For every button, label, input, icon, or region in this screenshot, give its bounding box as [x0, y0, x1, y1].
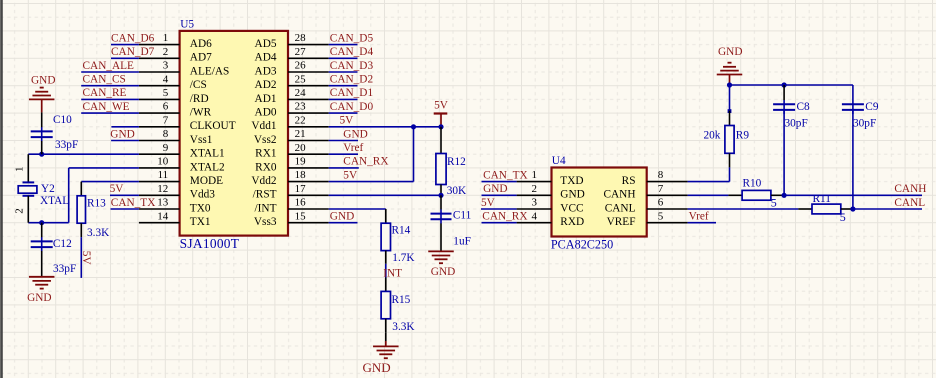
- svg-text:10: 10: [157, 156, 169, 168]
- svg-text:TX0: TX0: [190, 202, 211, 214]
- pin 3 of U5: [139, 60, 180, 72]
- wire / node CAN_ALE: [81, 60, 139, 72]
- pin 9 of U5: [139, 142, 180, 154]
- resistor R15: [381, 278, 415, 334]
- svg-text:Vdd1: Vdd1: [251, 120, 276, 132]
- svg-text:25: 25: [295, 73, 307, 85]
- ground GND top-right: [717, 46, 743, 85]
- svg-text:5: 5: [163, 87, 169, 99]
- pin 3 of U4: [517, 197, 552, 209]
- svg-text:Y2: Y2: [41, 183, 55, 195]
- svg-text:1: 1: [532, 169, 538, 181]
- svg-text:CAN_TX: CAN_TX: [111, 197, 156, 209]
- pin 23 of U5: [288, 101, 329, 113]
- svg-text:CANH: CANH: [894, 183, 926, 195]
- svg-text:ALE/AS: ALE/AS: [190, 65, 230, 77]
- svg-text:2: 2: [14, 208, 26, 214]
- svg-text:26: 26: [295, 60, 307, 72]
- pin 21 of U5: [288, 128, 329, 140]
- pin 5 of U4: [647, 210, 688, 222]
- svg-text:3.3K: 3.3K: [87, 227, 110, 239]
- svg-text:27: 27: [295, 46, 307, 58]
- wire / node CAN_D1: [329, 87, 373, 99]
- svg-text:U5: U5: [180, 19, 194, 31]
- svg-text:3.3K: 3.3K: [392, 321, 415, 333]
- capacitor C10: [31, 112, 79, 154]
- resistor R13: [77, 182, 110, 239]
- wire / node INT: [383, 264, 402, 280]
- svg-text:R13: R13: [87, 198, 106, 210]
- svg-text:30pF: 30pF: [785, 118, 808, 130]
- pin 17 of U5: [288, 183, 329, 195]
- svg-text:15: 15: [295, 210, 307, 222]
- wire / node GND (U4): [482, 183, 517, 195]
- wire / node GND (Vss1): [110, 128, 139, 140]
- svg-text:GND: GND: [560, 189, 584, 201]
- svg-text:Vdd2: Vdd2: [251, 175, 276, 187]
- wire / node CANL out: [853, 197, 925, 209]
- capacitor C9: [842, 85, 879, 209]
- svg-text:5: 5: [840, 210, 846, 224]
- svg-text:XTAL1: XTAL1: [190, 148, 225, 160]
- svg-text:2: 2: [163, 46, 169, 58]
- pin 12 of U5: [139, 183, 180, 195]
- svg-text:Vss2: Vss2: [254, 134, 277, 146]
- svg-text:5V: 5V: [110, 183, 125, 195]
- wire / node CAN_D5: [329, 32, 374, 44]
- ground GND below C12: [27, 277, 54, 304]
- svg-text:5: 5: [771, 196, 777, 210]
- svg-text:1: 1: [14, 167, 26, 173]
- svg-text:R9: R9: [736, 130, 750, 142]
- svg-text:RX0: RX0: [255, 161, 277, 173]
- svg-text:3: 3: [163, 60, 169, 72]
- svg-text:20: 20: [295, 142, 307, 154]
- svg-text:8: 8: [163, 128, 169, 140]
- ground GND top-left: [29, 75, 56, 113]
- svg-text:20k: 20k: [704, 130, 721, 142]
- svg-text:30K: 30K: [447, 185, 467, 197]
- wire pin7 stub: [111, 126, 138, 128]
- svg-text:2: 2: [532, 183, 538, 195]
- pin 13 of U5: [139, 197, 180, 209]
- svg-text:19: 19: [295, 156, 307, 168]
- wire CANL from pin6: [688, 208, 799, 210]
- svg-text:AD7: AD7: [190, 52, 212, 64]
- resistor R11: [798, 193, 853, 224]
- svg-text:GND: GND: [363, 360, 391, 375]
- svg-text:CAN_D7: CAN_D7: [111, 46, 155, 58]
- capacitor C11: [431, 195, 472, 251]
- svg-text:1.7K: 1.7K: [392, 252, 415, 264]
- wire / node CAN_D4: [329, 46, 374, 58]
- svg-text:PCA82C250: PCA82C250: [551, 238, 613, 252]
- svg-text:CAN_D6: CAN_D6: [111, 32, 155, 44]
- svg-text:GND: GND: [483, 183, 507, 195]
- svg-text:4: 4: [163, 73, 169, 85]
- wire / node Vref (U4 pin5): [688, 211, 716, 223]
- ground GND below R15: [363, 332, 399, 375]
- svg-text:4: 4: [532, 210, 538, 222]
- IC U5 SJA1000T: [180, 19, 288, 251]
- svg-text:C10: C10: [53, 114, 72, 126]
- svg-text:22: 22: [295, 114, 306, 126]
- svg-text:5V: 5V: [434, 100, 449, 112]
- svg-text:6: 6: [658, 197, 664, 209]
- svg-text:CAN_TX: CAN_TX: [483, 169, 528, 181]
- pin 5 of U5: [139, 87, 180, 99]
- wire / node CAN_RX (U4): [482, 211, 528, 223]
- pin 10 of U5: [139, 156, 180, 168]
- wire GND rail: [730, 84, 853, 86]
- pin 6 of U4: [647, 197, 688, 209]
- svg-text:AD2: AD2: [255, 79, 277, 91]
- wire / node CAN_D6: [111, 32, 155, 44]
- pin 14 of U5: [139, 210, 180, 222]
- wire XTAL1 net: [28, 153, 139, 155]
- svg-text:RS: RS: [622, 175, 636, 187]
- ground GND below C11: [428, 251, 455, 278]
- pin 16 of U5: [288, 197, 329, 209]
- svg-text:Vss1: Vss1: [190, 134, 213, 146]
- svg-text:CAN_RE: CAN_RE: [83, 87, 127, 99]
- svg-text:SJA1000T: SJA1000T: [180, 236, 240, 251]
- wire CANH from pin7: [688, 194, 729, 196]
- svg-text:Vref: Vref: [689, 211, 709, 223]
- svg-text:C9: C9: [865, 101, 879, 113]
- svg-text:/INT: /INT: [255, 202, 277, 214]
- pin 27 of U5: [288, 46, 329, 58]
- pin 11 of U5: [139, 169, 180, 181]
- svg-text:/CS: /CS: [190, 79, 207, 91]
- svg-text:AD6: AD6: [190, 38, 212, 50]
- pin 8 of U4: [647, 169, 688, 181]
- svg-text:MODE: MODE: [190, 175, 223, 187]
- IC U4 PCA82C250: [551, 155, 647, 252]
- wire / node 5V (Vdd3): [110, 183, 139, 195]
- crystal Y2: [14, 154, 70, 223]
- svg-text:AD4: AD4: [255, 52, 277, 64]
- svg-text:C11: C11: [453, 210, 471, 222]
- svg-text:R11: R11: [813, 193, 831, 205]
- svg-text:C8: C8: [797, 101, 811, 113]
- svg-text:U4: U4: [552, 155, 566, 167]
- power 5V symbol: [434, 100, 449, 127]
- resistor R10: [728, 178, 784, 210]
- resistor R14: [381, 209, 415, 264]
- pin 1 of U5: [139, 32, 180, 44]
- capacitor C12: [31, 223, 77, 277]
- pin 6 of U5: [139, 101, 180, 113]
- svg-text:CAN_D3: CAN_D3: [330, 60, 374, 72]
- svg-text:GND: GND: [343, 128, 367, 140]
- pin 15 of U5: [288, 210, 329, 222]
- svg-text:33pF: 33pF: [53, 263, 76, 275]
- pin 25 of U5: [288, 73, 329, 85]
- wire / node CAN_RE: [81, 87, 139, 99]
- pin 19 of U5: [288, 156, 329, 168]
- pin 1 of U4: [517, 169, 552, 181]
- node junction CANL/C9: [850, 206, 855, 211]
- svg-text:AD1: AD1: [255, 93, 277, 105]
- svg-text:TX1: TX1: [190, 216, 211, 228]
- wire / node CAN_TX (U4): [482, 169, 528, 181]
- svg-text:5: 5: [658, 210, 664, 222]
- wire / node CANH out: [784, 183, 926, 195]
- svg-text:CLKOUT: CLKOUT: [190, 120, 236, 132]
- svg-text:5V: 5V: [340, 115, 355, 127]
- svg-text:R14: R14: [392, 225, 411, 237]
- svg-text:VREF: VREF: [607, 216, 636, 228]
- svg-text:23: 23: [295, 101, 307, 113]
- svg-text:Vdd3: Vdd3: [190, 189, 215, 201]
- svg-text:21: 21: [295, 128, 306, 140]
- wire / node CAN_D3: [329, 60, 374, 72]
- wire / node 5V (U4): [481, 197, 517, 209]
- wire / node CAN_RX (RX0): [329, 156, 389, 168]
- svg-text:Vss3: Vss3: [254, 216, 277, 228]
- wire / node GND (Vss2): [329, 128, 368, 140]
- svg-text:GND: GND: [330, 211, 354, 223]
- svg-text:AD3: AD3: [255, 65, 277, 77]
- svg-text:5V: 5V: [80, 251, 92, 266]
- svg-text:5V: 5V: [481, 197, 496, 209]
- svg-text:R10: R10: [743, 178, 762, 190]
- node junction rail/C8: [782, 82, 787, 87]
- wire MODE to R13: [81, 181, 139, 183]
- svg-text:CAN_D5: CAN_D5: [330, 32, 374, 44]
- svg-text:6: 6: [163, 101, 169, 113]
- svg-text:8: 8: [658, 169, 664, 181]
- svg-text:9: 9: [163, 142, 169, 154]
- svg-text:CAN_ALE: CAN_ALE: [83, 60, 135, 72]
- node junction rail/R9: [727, 82, 732, 87]
- svg-text:/RST: /RST: [253, 189, 277, 201]
- svg-text:7: 7: [658, 183, 664, 195]
- svg-text:AD0: AD0: [255, 107, 277, 119]
- node junction 5V branch: [411, 124, 416, 129]
- svg-text:1: 1: [163, 32, 169, 44]
- svg-text:1uF: 1uF: [453, 236, 471, 248]
- svg-text:CAN_RX: CAN_RX: [343, 156, 388, 168]
- pin 2 of U5: [139, 46, 180, 58]
- pin 20 of U5: [288, 142, 329, 154]
- wire / node CAN_D0: [329, 101, 374, 113]
- capacitor C8: [773, 85, 810, 195]
- svg-text:CANL: CANL: [894, 197, 925, 209]
- svg-text:RX1: RX1: [255, 148, 276, 160]
- svg-text:CANH: CANH: [603, 189, 635, 201]
- svg-text:CAN_D1: CAN_D1: [330, 87, 373, 99]
- pin 8 of U5: [139, 128, 180, 140]
- svg-text:7: 7: [163, 114, 169, 126]
- svg-text:TXD: TXD: [560, 175, 583, 187]
- svg-text:11: 11: [158, 169, 169, 181]
- svg-text:12: 12: [157, 183, 168, 195]
- svg-text:GND: GND: [431, 266, 455, 278]
- wire / node CAN_D2: [329, 74, 374, 86]
- node junction C10/XTAL1: [39, 152, 44, 157]
- svg-text:CAN_RX: CAN_RX: [482, 211, 527, 223]
- svg-text:XTAL2: XTAL2: [190, 161, 225, 173]
- svg-text:CAN_CS: CAN_CS: [83, 74, 126, 86]
- wire / node Vref (RX1): [329, 142, 364, 154]
- pin 18 of U5: [288, 169, 329, 181]
- pin 2 of U4: [517, 183, 552, 195]
- pin 7 of U5: [139, 114, 180, 126]
- pin 26 of U5: [288, 60, 329, 72]
- svg-text:28: 28: [295, 32, 307, 44]
- svg-text:/RD: /RD: [190, 93, 209, 105]
- wire / node GND (Vss3): [329, 211, 358, 223]
- wire / node CAN_CS: [81, 74, 139, 86]
- svg-text:16: 16: [295, 197, 307, 209]
- svg-text:R12: R12: [447, 156, 466, 168]
- svg-text:/WR: /WR: [190, 107, 212, 119]
- svg-text:XTAL: XTAL: [40, 195, 69, 207]
- node junction CANH/C8: [782, 193, 787, 198]
- svg-text:GND: GND: [27, 292, 51, 304]
- wire 5V branch down to Vdd2: [329, 127, 414, 182]
- pin 24 of U5: [288, 87, 329, 99]
- svg-text:18: 18: [295, 169, 307, 181]
- wire /RST net: [329, 194, 441, 196]
- svg-text:CANL: CANL: [605, 202, 636, 214]
- svg-text:R15: R15: [392, 294, 411, 306]
- svg-text:14: 14: [157, 210, 169, 222]
- svg-text:CAN_D4: CAN_D4: [330, 46, 374, 58]
- wire XTAL2 net: [28, 168, 139, 223]
- node junction C12/XTAL2: [39, 220, 44, 225]
- pin 4 of U4: [517, 210, 552, 222]
- svg-text:GND: GND: [31, 75, 55, 87]
- svg-text:17: 17: [295, 183, 307, 195]
- svg-text:24: 24: [295, 87, 307, 99]
- wire RS net: [688, 167, 730, 181]
- pin 22 of U5: [288, 114, 329, 126]
- svg-text:13: 13: [157, 197, 169, 209]
- wire / node CAN_TX (TX0): [111, 197, 156, 209]
- svg-text:3: 3: [532, 197, 538, 209]
- node junction RST/C11: [438, 193, 443, 198]
- wire / node 5V (R13 pulldown rail): [80, 237, 92, 278]
- svg-text:CAN_D2: CAN_D2: [330, 74, 374, 86]
- svg-text:VCC: VCC: [560, 202, 583, 214]
- resistor R9: [704, 85, 750, 167]
- resistor R12: [436, 127, 467, 197]
- svg-text:CAN_WE: CAN_WE: [83, 101, 130, 113]
- wire / node CAN_WE: [81, 101, 139, 113]
- svg-text:5V: 5V: [343, 169, 358, 181]
- pin 28 of U5: [288, 32, 329, 44]
- svg-text:CAN_D0: CAN_D0: [330, 101, 374, 113]
- svg-text:GND: GND: [718, 46, 742, 58]
- svg-text:33pF: 33pF: [55, 139, 78, 151]
- svg-text:AD5: AD5: [255, 38, 277, 50]
- svg-text:RXD: RXD: [560, 216, 584, 228]
- pin 7 of U4: [647, 183, 688, 195]
- wire / node 5V (Vdd1): [329, 115, 441, 127]
- wire /INT net to R14: [329, 208, 386, 210]
- svg-text:30pF: 30pF: [853, 118, 876, 130]
- svg-text:C12: C12: [53, 238, 72, 250]
- svg-text:Vref: Vref: [343, 142, 363, 154]
- node junction 5V/R12: [438, 124, 443, 129]
- svg-text:GND: GND: [110, 128, 134, 140]
- wire / node CAN_D7: [111, 46, 155, 58]
- pin 4 of U5: [139, 73, 180, 85]
- sheet border (left edge): [0, 0, 3, 378]
